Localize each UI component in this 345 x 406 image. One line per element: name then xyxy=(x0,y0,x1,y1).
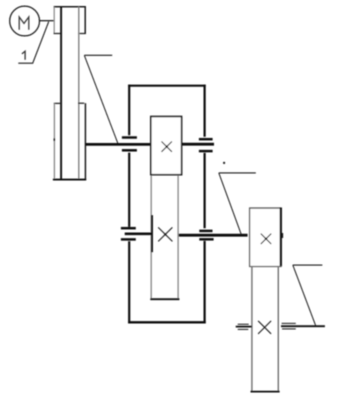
sprocket S2 right edge xyxy=(277,267,279,392)
shaft3 left bearing top line xyxy=(238,323,249,325)
label 1 text xyxy=(22,51,25,60)
pulley P2 bottom edge xyxy=(53,179,86,181)
motor letter M xyxy=(19,17,29,30)
pulley P1 bottom edge right part xyxy=(78,33,86,35)
gear Z2 column bottom edge xyxy=(150,298,179,300)
shaft3 right stub long xyxy=(281,325,325,327)
sprocket S1 left edge xyxy=(249,208,251,266)
label 1 leader xyxy=(18,22,48,64)
gearbox housing top wall xyxy=(128,85,206,87)
sprocket S1 cross xyxy=(261,234,271,244)
pulley P2 left edge xyxy=(53,103,55,178)
leader 4 diagonal xyxy=(293,265,316,325)
bearing shaft1 right top tick xyxy=(199,138,213,141)
bearing shaft2 left bottom tick xyxy=(121,238,136,241)
sprocket S1 right edge xyxy=(280,208,282,267)
shaft1 left segment xyxy=(86,143,151,146)
gear Z2 cross center dot xyxy=(164,233,166,235)
gearbox housing right wall upper segment xyxy=(204,85,206,137)
gear Z2 cross xyxy=(158,227,172,241)
leader 4 horizontal xyxy=(293,264,323,266)
gear Z2 hub dark bar xyxy=(151,215,153,252)
pulley P2 top edge right part xyxy=(78,102,84,104)
gearbox housing right wall middle segment xyxy=(204,153,206,228)
sprocket S1 top edge xyxy=(249,207,282,209)
sprocket S1 rectangle fill xyxy=(249,208,280,266)
gearbox housing left wall middle segment xyxy=(128,153,130,227)
sprocket S2 left edge xyxy=(251,267,253,392)
leader 3 horizontal xyxy=(219,172,256,174)
motor shaft xyxy=(39,20,54,22)
shaft1 right segment xyxy=(182,143,214,146)
sprocket S2 bottom edge xyxy=(251,391,280,393)
sprocket S2 cross xyxy=(258,321,271,334)
pulley P2 left edge tick xyxy=(53,138,55,141)
belt leader horizontal xyxy=(84,54,112,56)
leader 3 dot xyxy=(223,162,225,164)
belt left line xyxy=(60,7,62,180)
bearing shaft1 left bottom tick xyxy=(122,149,137,152)
shaft3 left stub xyxy=(236,326,252,328)
pulley P1 bottom edge left part xyxy=(54,33,62,35)
pulley P2 right edge xyxy=(84,103,86,179)
gearbox housing left wall lower segment xyxy=(128,241,130,323)
bearing shaft2 left top tick xyxy=(121,227,136,230)
gearbox housing bottom wall xyxy=(128,321,206,323)
belt leader diagonal xyxy=(84,55,118,143)
shaft2 right segment xyxy=(179,234,248,237)
gear Z2 column left edge xyxy=(150,176,152,299)
shaft3 right bearing bottom line xyxy=(282,328,296,330)
gear Z1 cross xyxy=(162,142,172,152)
shaft2 left segment xyxy=(125,233,151,236)
gear Z1 rectangle xyxy=(151,117,182,175)
pulley P1 top edge xyxy=(54,6,86,8)
sprocket S1 bottom edge xyxy=(249,266,282,268)
motor M1 circle xyxy=(10,6,40,36)
shaft3 right bearing top line xyxy=(282,322,296,324)
sprocket S1 cross center dot xyxy=(265,238,267,240)
gear Z1 cross center dot xyxy=(166,145,168,147)
gear Z2 column right edge xyxy=(177,176,179,299)
sprocket S1 shaft nub xyxy=(282,233,283,238)
shaft3 left bearing bottom line xyxy=(238,328,249,330)
bearing shaft2 right bottom tick xyxy=(199,238,213,241)
belt right line xyxy=(78,7,80,180)
pulley P1 left edge xyxy=(53,7,55,34)
pulley P1 right edge xyxy=(84,7,86,34)
leader 3 diagonal xyxy=(219,173,242,235)
bearing shaft2 right top tick xyxy=(199,230,212,233)
gearbox housing left wall upper segment xyxy=(128,85,130,136)
bearing shaft1 right bottom tick xyxy=(199,150,213,153)
bearing shaft1 left top tick xyxy=(122,136,137,139)
gearbox housing right wall lower segment xyxy=(204,241,206,324)
pulley P2 top edge left part xyxy=(54,102,60,104)
